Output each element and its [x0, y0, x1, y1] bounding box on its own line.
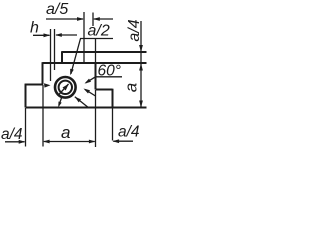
extension line x95 upper: [95, 39, 97, 63]
arrow below nugget pointing down: [59, 97, 62, 106]
svg-text:60°: 60°: [98, 63, 121, 80]
part top sheet upper surface: [62, 51, 147, 53]
extension line x112 bottom: [112, 108, 114, 141]
part left ledge: [25, 84, 43, 86]
part bottom line: [26, 107, 147, 109]
svg-text:a: a: [122, 83, 141, 92]
arrowhead below nugget: [58, 102, 61, 108]
right dimension line x141: [140, 21, 142, 108]
extension line x84: [83, 12, 85, 63]
bottom a dimension line: [44, 141, 95, 143]
svg-text:h: h: [30, 20, 39, 37]
weld nugget outer circle: [55, 77, 76, 98]
slot left line: [50, 29, 52, 81]
dimension a/5 right line: [94, 18, 113, 20]
arrowhead down at y107: [139, 101, 143, 108]
ledge leader arrowhead pointing right: [44, 83, 51, 87]
svg-text:a/5: a/5: [46, 1, 68, 18]
svg-text:a: a: [61, 123, 70, 142]
bottom-left a/4 tail line: [5, 141, 25, 143]
part right ledge: [96, 89, 113, 91]
dimension h right arrowhead: [55, 33, 62, 37]
dimension h left arrowhead: [44, 33, 51, 37]
part top sheet left edge: [61, 51, 63, 63]
part sheet interface line: [43, 62, 147, 64]
label a/2 shelf: [80, 38, 113, 40]
part middle left edge: [42, 62, 44, 84]
slot right line: [54, 29, 56, 70]
part right edge upper: [95, 63, 97, 90]
arrow lower-right pointing up-left at nugget: [75, 97, 88, 108]
dimension a/5 right arrowhead: [93, 17, 100, 21]
label 60 shelf: [96, 76, 123, 78]
part lower-left edge: [25, 84, 27, 108]
label 60 leader: [86, 77, 96, 83]
extension line x93: [92, 13, 94, 27]
arrowhead bevel lower: [84, 89, 91, 94]
arrowhead up at y63: [139, 64, 143, 71]
bottom-left a/4 arrowhead: [19, 140, 26, 144]
arrow inside nugget pointing up-right: [58, 84, 69, 96]
dimension h left line: [33, 34, 50, 36]
arrow into nugget lower-right of bevel: [85, 89, 96, 96]
svg-text:a/4: a/4: [118, 124, 140, 141]
label 60 leader arrowhead: [85, 79, 92, 84]
bottom a left arrowhead: [43, 140, 50, 144]
svg-text:a/4: a/4: [1, 126, 23, 143]
bottom a right arrowhead: [89, 140, 96, 144]
dimension h right line: [56, 34, 77, 36]
extension line x25 bottom: [25, 108, 27, 147]
part lower-right edge: [112, 89, 114, 108]
dimension a/5 left line: [46, 18, 83, 20]
label a/2 leader arrowhead: [70, 69, 74, 76]
dimension a/5 left arrowhead: [77, 17, 84, 21]
bottom-right a/4 tail line: [113, 140, 133, 142]
arrowhead inside nugget: [63, 84, 69, 91]
label a/2 leader: [71, 39, 81, 74]
extension line x43: [42, 85, 44, 147]
svg-text:a/2: a/2: [88, 23, 110, 40]
extension line x95 lower: [95, 90, 97, 147]
arrowhead lower-right: [75, 97, 81, 103]
svg-text:a/4: a/4: [126, 19, 143, 41]
bottom-right a/4 arrowhead: [113, 139, 120, 143]
arrowhead down at y52: [139, 45, 143, 52]
weld nugget inner circle: [59, 81, 72, 94]
